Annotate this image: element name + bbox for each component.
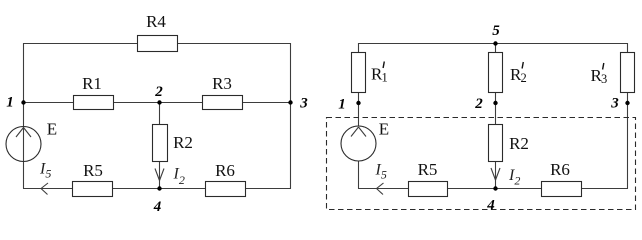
svg-text:R6: R6: [550, 160, 570, 179]
wire: bottom horizontal of right circuit: [358, 188, 628, 190]
node 1: [6, 95, 25, 111]
svg-text:E: E: [47, 120, 57, 139]
svg-text:R4: R4: [146, 12, 166, 31]
svg-text:3: 3: [601, 72, 607, 86]
resistor R'3 (vertical): [591, 53, 635, 93]
svg-text:1: 1: [382, 71, 388, 85]
svg-text:5: 5: [492, 23, 500, 39]
dashed subnetwork box: [327, 118, 636, 210]
svg-text:R2: R2: [509, 134, 529, 153]
resistor R'1 (vertical): [352, 53, 388, 93]
svg-text:3: 3: [610, 96, 619, 112]
source E (circle with up arrow): [6, 120, 57, 162]
current arrow I2 on R2 branch (pointing down): [155, 166, 185, 188]
node 3 (right): [610, 96, 629, 112]
resistor R5: [73, 161, 113, 197]
wire: R'1 branch (top bus to node1 to source E): [358, 43, 360, 127]
svg-text:1: 1: [338, 97, 346, 113]
resistor R'2 (vertical): [489, 53, 527, 93]
node 2: [154, 84, 163, 105]
svg-text:R5: R5: [83, 161, 103, 180]
svg-text:4: 4: [153, 199, 162, 215]
resistor R3: [203, 74, 243, 110]
resistor R4: [138, 12, 178, 52]
resistor R1: [74, 74, 114, 110]
node 4: [153, 186, 162, 215]
current arrow I5 right (pointing left): [375, 162, 387, 195]
svg-text:4: 4: [486, 198, 495, 214]
node 1 (right): [338, 97, 360, 113]
resistor R2 (vertical): [153, 125, 193, 162]
wire: right vertical branch x=291 (node 3): [290, 43, 292, 189]
svg-text:2: 2: [521, 71, 527, 85]
resistor R2 (right, vertical): [489, 125, 529, 162]
svg-text:R6: R6: [215, 161, 235, 180]
svg-text:R2: R2: [173, 133, 193, 152]
wire: left vertical branch x=23 (node 1 down through source E to bottom): [23, 43, 25, 189]
svg-text:R5: R5: [418, 160, 438, 179]
wire: right circuit top bus: [358, 43, 628, 45]
wire: left circuit top (node1 riser to node3 riser via R4): [23, 43, 291, 45]
svg-text:1: 1: [6, 95, 14, 111]
svg-text:2: 2: [474, 96, 483, 112]
resistor R6 (right): [542, 160, 582, 197]
current arrow I5 on bottom wire (pointing left): [39, 161, 51, 195]
wire: middle horizontal 1-2-3: [23, 102, 291, 104]
wire: R'3 branch and right side down to bottom: [627, 43, 629, 189]
wire: source E bottom to bottom wire: [358, 161, 360, 189]
svg-text:R1: R1: [82, 74, 102, 93]
resistor R6: [206, 161, 246, 197]
wire: R'2 branch (node5 to node2 to R2): [495, 43, 497, 124]
wire: R2 branch to node 4: [495, 162, 497, 189]
node 4 (right): [486, 186, 497, 213]
node 2 (right): [474, 96, 497, 112]
wire: R2 branch node2 to node4: [159, 102, 161, 189]
wire: bottom horizontal: [23, 188, 291, 190]
svg-text:R3: R3: [212, 74, 232, 93]
node 3: [288, 96, 308, 112]
svg-text:E: E: [379, 120, 389, 139]
current arrow I2 right (pointing down): [491, 167, 520, 188]
svg-text:2: 2: [154, 84, 163, 100]
source E right (circle with up arrow): [341, 120, 389, 162]
node 5: [492, 23, 500, 46]
resistor R5 (right): [409, 160, 448, 197]
svg-text:3: 3: [299, 96, 308, 112]
